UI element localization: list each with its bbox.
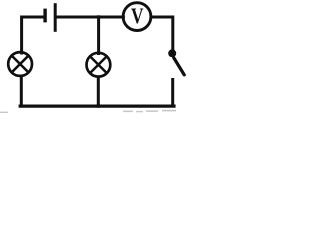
switch S1 blade (open) bbox=[174, 58, 184, 75]
wire: top wire from battery to voltmeter bbox=[57, 16, 123, 19]
node: T-junction bottom wire / lamp L2 branch bbox=[97, 104, 100, 107]
wire: voltmeter to top-right corner and down to switch bbox=[152, 17, 173, 50]
wire: switch lower terminal to bottom-right corner bbox=[171, 80, 174, 107]
scan artifacts bottom (decorative) bbox=[0, 110, 176, 113]
battery B1 long plate (positive) bbox=[54, 3, 57, 32]
lamp L1 bbox=[8, 52, 32, 76]
switch S1 contact dot bbox=[168, 49, 176, 57]
wire: branch down to lamp L2 bbox=[97, 17, 100, 54]
wire: lamp L1 to bottom wire bbox=[20, 77, 23, 107]
lamp L2 bbox=[87, 53, 111, 77]
svg-text:V: V bbox=[131, 3, 144, 28]
wire: lamp L2 to bottom wire bbox=[97, 77, 100, 106]
bottom wire bbox=[20, 104, 174, 107]
battery B1 short plate (negative) bbox=[43, 9, 46, 23]
node: T-junction top wire / lamp L2 branch bbox=[97, 15, 100, 18]
voltmeter V (meter U1) bbox=[123, 3, 151, 31]
wire: left vertical from top-left corner down to lamp L1 bbox=[22, 17, 45, 53]
